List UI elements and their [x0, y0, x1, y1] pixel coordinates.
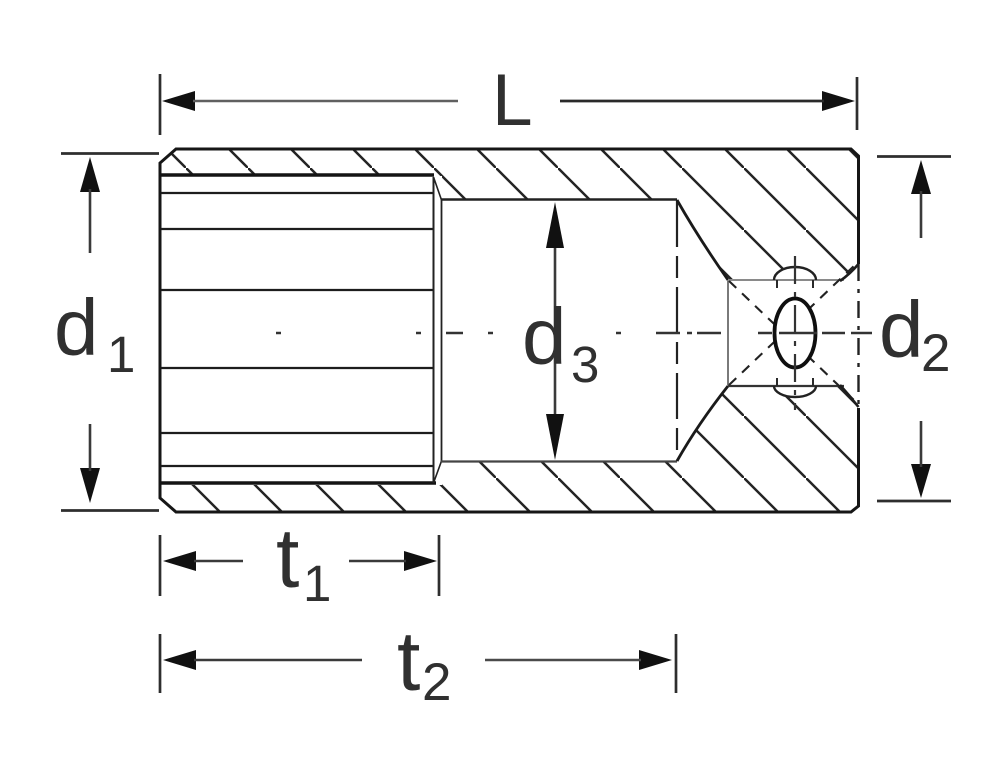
white-out funnel cone: [676, 200, 728, 461]
dimension t2 ticks: [159, 634, 162, 693]
spline line y368: [161, 367, 434, 369]
svg-text:3: 3: [571, 336, 599, 393]
hatch fill body: [160, 149, 857, 512]
white-out left chamfer corners: [158, 149, 177, 166]
d2 up arrow: [911, 160, 931, 194]
cavity left edge vertical: [441, 199, 443, 462]
dimension d2 ticks: [877, 155, 951, 158]
body outline: [160, 149, 859, 512]
top bump groove feet: [777, 280, 813, 288]
d3 down arrow: [546, 414, 564, 460]
spline line y229: [161, 228, 434, 230]
horizontal centerline segments: [276, 332, 872, 334]
right face chamfer arc bottom: [840, 385, 859, 407]
cone chamfer bottom small: [434, 461, 442, 483]
dimension L right arrow: [822, 91, 855, 111]
right face hidden dash-dot vertical: [857, 264, 859, 408]
spline line y433: [161, 432, 434, 434]
funnel top line: [677, 200, 728, 280]
white-out right opening: [841, 265, 857, 407]
square drive bottom edge: [728, 385, 844, 387]
t1 right arrow: [404, 551, 437, 571]
white-out top ball groove bump: [774, 267, 816, 293]
white-out square drive hole: [728, 280, 857, 386]
vertical centerline at drive: [794, 256, 796, 410]
t2 right arrow: [639, 650, 672, 670]
ball detent ellipse: [775, 299, 816, 368]
square drive left edge: [727, 280, 729, 386]
spline line y193: [161, 192, 434, 194]
cone chamfer top small: [434, 177, 442, 200]
svg-text:t: t: [276, 511, 299, 605]
countersink diagonal dashed B: [729, 264, 856, 385]
cavity top edge: [441, 198, 677, 201]
t1 left arrow: [163, 551, 196, 571]
d1 up arrow: [80, 157, 100, 192]
svg-text:d: d: [879, 285, 924, 374]
spline line y175: [160, 173, 434, 177]
funnel bottom line: [677, 386, 728, 461]
svg-text:1: 1: [303, 555, 331, 612]
spline line y483: [160, 481, 436, 485]
svg-text:1: 1: [107, 326, 135, 383]
white-out bottom ball groove bump: [774, 375, 816, 397]
d1 down arrow: [80, 468, 100, 503]
cavity bottom edge: [441, 460, 677, 462]
countersink diagonal dashed A: [729, 281, 856, 402]
white-out socket spline bore: [159, 176, 442, 485]
dimension L left arrow: [162, 91, 195, 111]
svg-text:t: t: [397, 614, 420, 708]
dimension d3 shaft: [554, 243, 557, 418]
spline line y466: [161, 465, 434, 467]
square drive top edge: [728, 279, 844, 281]
dimension L ticks: [159, 74, 162, 135]
top bump arc: [774, 267, 816, 280]
dimension t1 ticks: [159, 535, 162, 596]
svg-text:d: d: [54, 283, 99, 372]
bottom bump groove feet: [777, 378, 813, 386]
d3 up arrow: [546, 202, 564, 248]
t2 left arrow: [163, 650, 196, 670]
dimension d1 ticks: [61, 152, 159, 155]
bottom bump arc: [774, 386, 816, 397]
d2 down arrow: [911, 464, 931, 498]
white-out drilled cavity d3: [442, 200, 677, 461]
cavity end dashed vertical: [676, 201, 678, 459]
svg-text:d: d: [522, 292, 567, 381]
spline line y290: [161, 289, 434, 291]
svg-text:L: L: [492, 60, 533, 141]
svg-text:2: 2: [921, 324, 950, 383]
right face chamfer arc top: [840, 264, 859, 281]
spline end vertical: [433, 177, 435, 483]
svg-text:2: 2: [422, 653, 451, 712]
